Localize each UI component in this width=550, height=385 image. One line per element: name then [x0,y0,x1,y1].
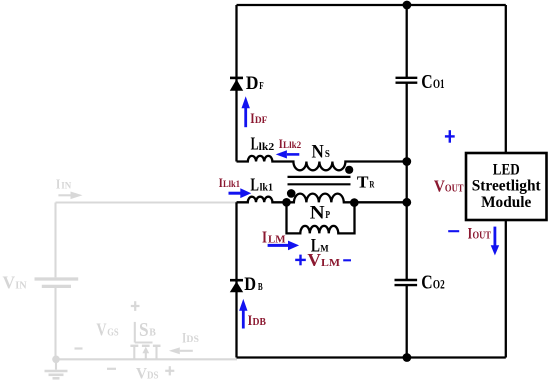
svg-text:V: V [96,320,106,340]
svg-text:D: D [246,73,259,94]
svg-text:F: F [259,81,263,92]
svg-text:OUT: OUT [473,231,492,242]
svg-text:LM: LM [268,233,286,245]
svg-text:V: V [136,365,147,382]
svg-text:L: L [251,134,259,154]
svg-text:R: R [369,181,374,191]
svg-text:DB: DB [253,317,267,328]
svg-text:DS: DS [186,335,199,345]
svg-text:Module: Module [481,194,531,211]
svg-text:Llk2: Llk2 [283,140,302,150]
svg-text:LM: LM [321,258,340,269]
svg-text:IN: IN [61,181,71,191]
svg-text:N: N [310,202,325,223]
svg-text:S: S [325,149,330,160]
svg-text:I: I [56,177,60,192]
svg-text:lk2: lk2 [259,141,275,153]
svg-text:LED: LED [493,162,520,179]
svg-text:V: V [434,177,445,196]
svg-text:O1: O1 [433,77,445,91]
svg-text:M: M [320,245,328,255]
svg-text:B: B [149,328,156,339]
svg-text:DS: DS [147,370,159,381]
svg-text:DF: DF [255,116,268,126]
svg-text:D: D [244,274,256,295]
svg-text:lk1: lk1 [260,182,273,194]
svg-text:T: T [357,173,369,192]
svg-text:L: L [311,237,320,257]
svg-text:N: N [312,142,325,162]
svg-text:L: L [250,175,259,195]
svg-text:O2: O2 [433,277,445,291]
svg-text:IN: IN [15,280,27,291]
svg-text:P: P [325,210,330,221]
svg-text:I: I [468,226,473,243]
svg-text:B: B [258,282,263,293]
svg-text:GS: GS [107,328,119,339]
svg-text:C: C [421,271,432,293]
svg-text:Streetlight: Streetlight [472,178,542,195]
svg-text:C: C [421,71,432,93]
svg-text:I: I [262,227,267,246]
svg-text:OUT: OUT [445,183,464,195]
svg-text:V: V [3,273,16,293]
svg-text:S: S [139,319,149,341]
svg-text:Llk1: Llk1 [223,179,240,189]
